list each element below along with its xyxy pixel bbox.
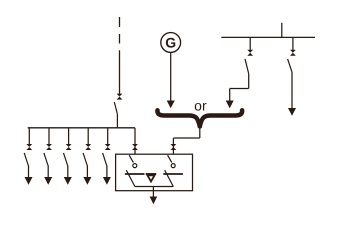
svg-text:or: or <box>194 98 207 114</box>
svg-text:G: G <box>165 35 176 51</box>
